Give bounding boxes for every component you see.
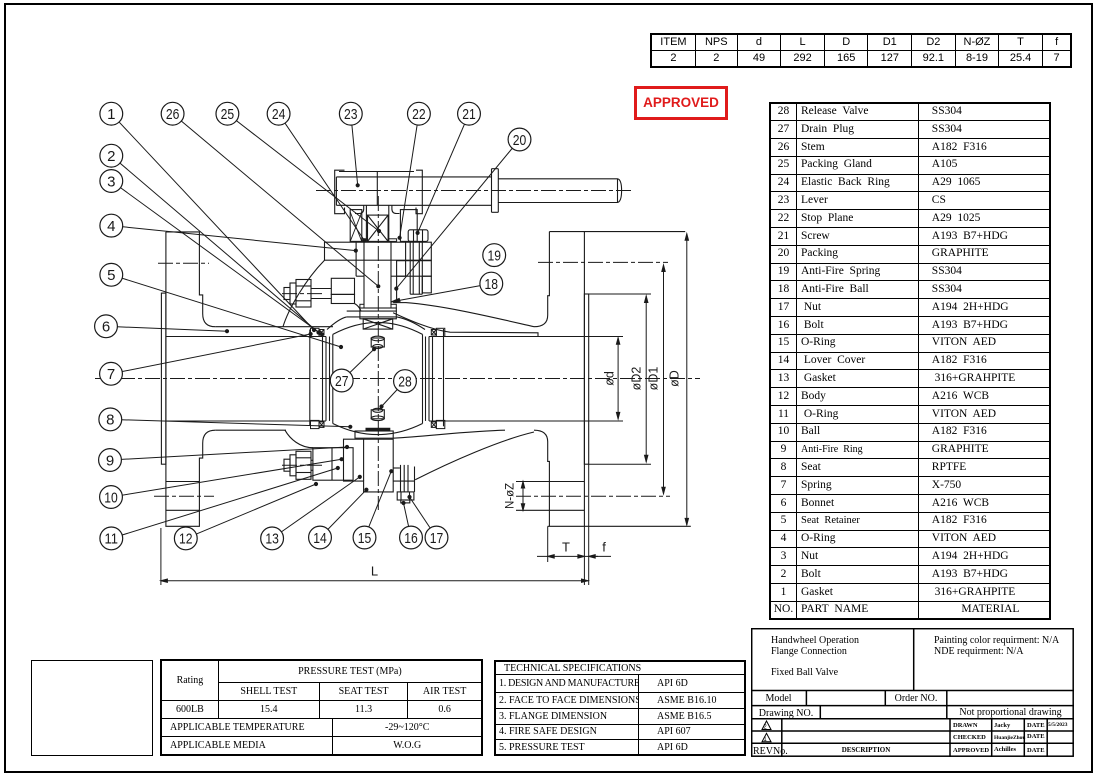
balloon 23 bbox=[339, 102, 362, 125]
svg-text:1: 1 bbox=[107, 106, 115, 123]
callout balloons bbox=[95, 102, 531, 550]
screw item 21 bbox=[408, 230, 428, 294]
leader 14 bbox=[320, 490, 366, 538]
right flange F2 bbox=[516, 232, 691, 527]
leader 22 bbox=[400, 114, 419, 238]
svg-text:øD1: øD1 bbox=[647, 367, 661, 391]
balloon 11 bbox=[100, 527, 123, 550]
svg-text:N-øZ: N-øZ bbox=[505, 483, 517, 509]
balloon 13 bbox=[261, 527, 284, 550]
balloon 18 bbox=[480, 272, 503, 295]
release valve item 28 lower bbox=[371, 408, 384, 420]
balloon 6 bbox=[95, 315, 118, 338]
body B1 wall verticals bbox=[310, 329, 444, 426]
svg-text:18: 18 bbox=[485, 276, 499, 293]
svg-text:12: 12 bbox=[179, 531, 193, 548]
leader 13 bbox=[272, 477, 360, 539]
drain plug item 27 upper bbox=[371, 336, 384, 348]
stop plane item 22 bbox=[335, 170, 423, 214]
svg-text:3: 3 bbox=[107, 173, 115, 190]
svg-text:13: 13 bbox=[265, 531, 279, 548]
balloon 17 bbox=[425, 526, 448, 549]
leader 20 bbox=[396, 140, 519, 289]
leader 6 bbox=[106, 326, 227, 331]
svg-text:6: 6 bbox=[102, 319, 110, 336]
packing gland item 25 lips bbox=[360, 239, 397, 308]
balloon 14 bbox=[309, 526, 332, 549]
balloon 12 bbox=[174, 527, 197, 550]
svg-text:2: 2 bbox=[107, 148, 115, 165]
body lower-right S-curves bbox=[393, 430, 534, 480]
svg-text:16: 16 bbox=[404, 530, 418, 547]
dimension L face to face bbox=[161, 564, 588, 583]
seat retainer cluster top-right bbox=[431, 328, 445, 336]
leader 16 bbox=[404, 503, 412, 538]
leader 21 bbox=[418, 114, 469, 233]
leader 24 bbox=[279, 114, 365, 241]
leader 9 bbox=[110, 447, 347, 460]
leader 11 bbox=[111, 468, 337, 538]
technical specifications table bbox=[494, 660, 746, 756]
balloon 25 bbox=[216, 102, 239, 125]
mounting plate item 6 top flange bbox=[325, 242, 432, 276]
svg-text:T: T bbox=[562, 540, 570, 555]
centerline upper left body bolt bbox=[282, 293, 323, 295]
svg-text:10: 10 bbox=[104, 489, 118, 506]
svg-text:22: 22 bbox=[412, 106, 426, 123]
ball item 10 bbox=[333, 322, 423, 434]
balloon 9 bbox=[99, 449, 122, 472]
centerline lever axis bbox=[316, 190, 634, 192]
balloon 28 bbox=[394, 370, 417, 393]
balloon 21 bbox=[458, 102, 481, 125]
seat retainer cluster bottom-right bbox=[431, 420, 445, 428]
leader 28 bbox=[382, 381, 406, 406]
leader 23 bbox=[351, 114, 358, 186]
leader 18 bbox=[391, 284, 491, 302]
bonnet dome outline bbox=[283, 260, 538, 448]
svg-text:L: L bbox=[371, 564, 378, 579]
dimension od bore bbox=[603, 338, 620, 419]
svg-text:23: 23 bbox=[344, 106, 358, 123]
centerline right flange bolt hole bottom bbox=[516, 495, 670, 497]
balloon 4 bbox=[100, 214, 123, 237]
svg-text:9: 9 bbox=[106, 452, 114, 469]
svg-text:27: 27 bbox=[335, 373, 349, 390]
pressure test table bbox=[160, 659, 483, 756]
leader 27 bbox=[342, 349, 374, 380]
balloon 26 bbox=[161, 102, 184, 125]
dimension oD2 raised face bbox=[630, 296, 648, 462]
leader 12 bbox=[186, 484, 316, 538]
leader 8 bbox=[110, 419, 350, 426]
svg-text:17: 17 bbox=[430, 530, 444, 547]
stem item 26 bbox=[360, 205, 396, 318]
svg-text:ød: ød bbox=[603, 371, 617, 386]
drain bolt items 16 17 bbox=[393, 465, 414, 503]
leader 1 bbox=[111, 114, 314, 330]
bottom-left empty box bbox=[31, 660, 153, 756]
svg-text:26: 26 bbox=[166, 106, 180, 123]
leader 3 bbox=[111, 181, 322, 335]
leader 26 bbox=[173, 114, 379, 287]
leader 5 bbox=[111, 275, 341, 347]
dimension extension lines bbox=[161, 294, 651, 585]
svg-text:øD: øD bbox=[668, 370, 682, 387]
leader 10 bbox=[111, 459, 342, 497]
left flange F1 bbox=[161, 232, 215, 526]
bonnet boss left plates bbox=[311, 278, 361, 311]
anti-fire ball item 18 bowtie bbox=[363, 319, 393, 329]
centerline lower left body bolt bbox=[282, 464, 323, 466]
balloon 2 bbox=[100, 144, 123, 167]
leader 17 bbox=[410, 497, 437, 538]
svg-text:øD2: øD2 bbox=[630, 367, 644, 391]
body hub lines bbox=[215, 327, 333, 431]
seat rings item 8 bbox=[323, 337, 433, 421]
lever hub flares bbox=[355, 205, 400, 213]
packing item 20 X-box bbox=[368, 215, 389, 241]
yoke posts bbox=[350, 210, 417, 242]
balloon 8 bbox=[99, 408, 122, 431]
svg-text:15: 15 bbox=[358, 530, 372, 547]
centerline left flange bolt hole bottom bbox=[154, 495, 214, 497]
balloon 27 bbox=[330, 369, 353, 392]
dimension oD flange bbox=[668, 234, 689, 525]
dimension N-oZ bolt hole bbox=[505, 482, 525, 511]
leader lines bbox=[106, 114, 520, 539]
balloon 22 bbox=[408, 102, 431, 125]
centerline horizontal main axis bbox=[95, 191, 700, 511]
svg-text:7: 7 bbox=[107, 366, 115, 383]
svg-text:5: 5 bbox=[107, 267, 115, 284]
centerline left flange bolt circle top bbox=[158, 262, 209, 264]
balloon 20 bbox=[508, 128, 531, 151]
leader 25 bbox=[227, 114, 379, 231]
svg-text:11: 11 bbox=[105, 531, 119, 548]
lover cover item 14 bottom cap bbox=[332, 429, 400, 492]
title block bbox=[751, 628, 1074, 757]
balloon 7 bbox=[100, 362, 123, 385]
balloon 5 bbox=[100, 263, 123, 286]
balloon 15 bbox=[353, 526, 376, 549]
svg-text:8: 8 bbox=[106, 412, 114, 429]
dimension T flange thickness bbox=[537, 540, 598, 559]
svg-text:28: 28 bbox=[398, 373, 412, 390]
leader 4 bbox=[111, 226, 355, 251]
dimension oD1 bolt circle bbox=[647, 265, 666, 494]
svg-text:25: 25 bbox=[221, 106, 235, 123]
svg-text:f: f bbox=[602, 540, 606, 555]
bolt item 2 upper left bbox=[284, 280, 311, 308]
seat retainer cluster top-left bbox=[311, 328, 325, 336]
svg-text:19: 19 bbox=[487, 247, 501, 264]
svg-text:20: 20 bbox=[513, 132, 527, 149]
wire pipe bore lines bbox=[166, 337, 589, 422]
dimension f raised face height bbox=[589, 540, 611, 559]
leader 15 bbox=[365, 471, 392, 537]
parts list table bbox=[769, 102, 1051, 620]
seat retainer cluster bottom-left bbox=[311, 420, 325, 428]
svg-text:21: 21 bbox=[462, 106, 476, 123]
balloon 24 bbox=[267, 102, 290, 125]
svg-text:14: 14 bbox=[313, 530, 327, 547]
bolt item 2 lower left bbox=[284, 451, 313, 479]
svg-text:24: 24 bbox=[272, 106, 286, 123]
APPROVED stamp bbox=[634, 86, 728, 120]
svg-text:4: 4 bbox=[107, 218, 115, 235]
balloon 1 bbox=[100, 102, 123, 125]
bonnet boss right bbox=[397, 261, 432, 303]
leader 2 bbox=[111, 156, 318, 333]
balloon 3 bbox=[100, 170, 123, 193]
centerline stem vertical axis bbox=[377, 196, 379, 510]
balloon 16 bbox=[400, 526, 423, 549]
leader 7 bbox=[111, 334, 311, 374]
bonnet item 6 lower-left boss bbox=[313, 448, 353, 481]
top dimension table bbox=[650, 33, 1072, 68]
centerline right flange bolt circle top bbox=[538, 261, 668, 263]
balloon 10 bbox=[100, 486, 123, 509]
balloon 19 bbox=[483, 244, 506, 267]
lever item 23 bar bbox=[336, 169, 621, 213]
